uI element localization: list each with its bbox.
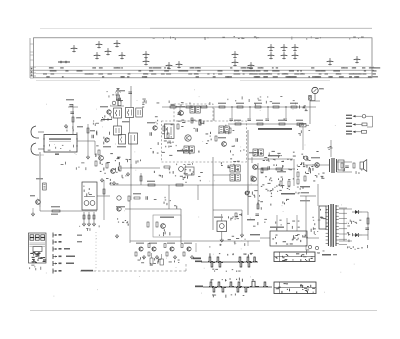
capacitor Cr1 bbox=[229, 119, 233, 121]
wire rail drop 4 bbox=[285, 107, 287, 118]
resistor R39 bbox=[103, 189, 105, 194]
ground G9 bbox=[92, 222, 95, 226]
resistor Rc2 bbox=[164, 244, 166, 248]
waveform glyph W14 bbox=[268, 45, 275, 52]
arrowhead conn 2 bbox=[353, 123, 356, 125]
extra parts above SW-A bbox=[209, 236, 245, 248]
capacitor Cr0a bbox=[177, 113, 181, 115]
SW-B baseline bbox=[203, 286, 272, 288]
audio bias parts bbox=[313, 173, 324, 182]
resistor Rc1 bbox=[148, 244, 150, 248]
IF transformer T5 bbox=[253, 149, 263, 156]
resistor R23 bbox=[83, 215, 85, 219]
video cluster parts bbox=[263, 155, 284, 162]
resistor R19 bbox=[128, 196, 130, 201]
capacitor C8 bbox=[236, 138, 238, 142]
wire filter out bbox=[97, 195, 110, 197]
extra labels under tuner area bbox=[61, 162, 87, 170]
wire rectifier bottom bbox=[339, 240, 352, 242]
thick video line bbox=[258, 128, 292, 130]
label Q8 and parts bbox=[249, 152, 259, 153]
labels under pilot lamps bbox=[306, 250, 325, 255]
legend right note b bbox=[77, 241, 82, 242]
label audio section bbox=[300, 186, 310, 187]
wire center vert 2 bbox=[130, 164, 132, 200]
coil can T2c bbox=[129, 133, 138, 144]
parts above deflection bbox=[275, 220, 300, 231]
transistor Q6 IF2 bbox=[185, 135, 191, 141]
label R11 bbox=[147, 181, 155, 182]
capacitor C4 polarized lower-left bbox=[43, 183, 47, 190]
sync cluster b bbox=[228, 213, 242, 220]
connector list label 3 bbox=[346, 123, 352, 124]
loop parts bbox=[159, 229, 170, 236]
ground G13 bbox=[220, 238, 223, 242]
switch table footnotes bbox=[29, 265, 41, 271]
resistor Rb2 bbox=[148, 252, 150, 256]
label osc can bbox=[214, 217, 223, 218]
wire T7 secondary bottom bbox=[337, 171, 353, 173]
pilot lamp circles under transformer bbox=[306, 245, 319, 250]
power switch marks bbox=[320, 209, 328, 227]
transistor Q3 mixer bbox=[105, 138, 109, 142]
label SW-B bbox=[195, 286, 203, 288]
resistor R30 bbox=[106, 163, 108, 168]
wire T1a to T2a bbox=[117, 118, 119, 126]
resistor R9 bbox=[215, 136, 217, 141]
connector plug symbol P3 bbox=[362, 130, 367, 133]
connector list label 5 bbox=[346, 131, 352, 132]
wire B+ rail top bbox=[162, 106, 316, 108]
wire Q1 emitter bbox=[39, 207, 41, 211]
bottom row labels bbox=[138, 257, 180, 265]
resistor R38 bbox=[257, 204, 259, 209]
resistor R8 bbox=[199, 120, 201, 125]
capacitor C5 bbox=[128, 92, 132, 94]
wire T5 down bbox=[251, 157, 253, 163]
oscillator box bbox=[165, 124, 175, 139]
SW-B pulse a5 wide bbox=[250, 281, 259, 286]
diode D1 bbox=[352, 210, 362, 214]
transistor Qb3 bottom row bbox=[170, 247, 174, 251]
label node bbox=[77, 126, 83, 127]
wire center vertical to AGC bbox=[130, 141, 132, 168]
rail labels bbox=[227, 96, 296, 106]
waveform glyph W12 bbox=[232, 60, 239, 67]
ground G12 bbox=[112, 181, 115, 185]
transistor Q2 RF amp bbox=[107, 110, 111, 114]
waveform glyph arrow left bbox=[58, 61, 70, 64]
osc can labels bbox=[233, 216, 239, 219]
dashed wire up bbox=[185, 262, 187, 271]
table FIG notes 2 frame bbox=[274, 282, 316, 294]
extra parts top center bbox=[142, 99, 159, 108]
coil can T2b bbox=[119, 135, 126, 145]
legend right note a bbox=[77, 235, 82, 236]
resistor R11 bbox=[148, 184, 155, 186]
wire left bus vertical bbox=[39, 152, 41, 207]
wire driver to Q10 bbox=[303, 164, 314, 166]
dotted wire crystal to legend bbox=[95, 232, 97, 271]
extra parts right of video bbox=[297, 154, 311, 170]
tuning coil can T1b bbox=[126, 108, 134, 118]
resistor column mid box bbox=[206, 132, 212, 144]
label SW arrow right bbox=[195, 261, 202, 263]
SW-B pulse b1 bbox=[212, 288, 217, 292]
waveform glyph W6 bbox=[119, 53, 126, 60]
label Q3 bbox=[103, 146, 111, 147]
wire down to audio transformer bbox=[330, 140, 332, 157]
wire into deflection 1 bbox=[276, 215, 278, 231]
label right of sync 2 bbox=[250, 234, 260, 235]
extra parts right of tuner bbox=[96, 131, 110, 147]
SW-A pulse b4 bbox=[247, 263, 252, 267]
speaker SP1 bbox=[360, 160, 367, 172]
transistor Q17 circle bbox=[179, 167, 184, 172]
tuning coil can T1a bbox=[114, 108, 122, 118]
wire down to sound section bbox=[302, 127, 304, 150]
SW-A pulse a4 bbox=[246, 257, 251, 261]
tuner pin dots bbox=[43, 138, 77, 155]
waveform glyph W15 bbox=[281, 45, 288, 52]
waveform chart band frame bbox=[34, 38, 373, 78]
transistor Qb1 bottom row bbox=[139, 247, 143, 251]
ground Gb2 bbox=[155, 255, 158, 259]
waveform band small tick rows bbox=[43, 67, 380, 77]
waveform glyph W8 bbox=[143, 59, 150, 66]
af cluster parts bbox=[117, 218, 128, 225]
label Q5 bbox=[176, 106, 185, 107]
waveform glyph W21 bbox=[354, 57, 361, 64]
SW-A pulse b3 bbox=[239, 263, 244, 267]
capacitor C10 bbox=[345, 166, 349, 168]
label R1 value bbox=[76, 117, 81, 118]
transistor Q5 IF1 bbox=[179, 111, 184, 116]
extra parts left mid bbox=[106, 175, 127, 185]
resistor R5 bbox=[98, 150, 100, 155]
capacitor Cr3 bbox=[265, 119, 269, 121]
resistor R31 bbox=[191, 118, 193, 123]
wire screen rail bbox=[228, 123, 306, 125]
wire sync h bbox=[213, 209, 242, 211]
wire rail drop left b bbox=[195, 107, 197, 112]
wire into T6 bbox=[213, 174, 230, 176]
SW-A pulse a5 bbox=[253, 257, 257, 261]
SW-A pulse a3 bbox=[238, 257, 243, 261]
label sound text bbox=[281, 193, 295, 195]
crystal filter marks bbox=[83, 186, 92, 197]
wire bottom row bus bbox=[130, 240, 196, 242]
extra parts box B lower bbox=[230, 146, 245, 156]
SW-B pulse a3 bbox=[229, 282, 234, 286]
parts left of vertical bbox=[299, 105, 308, 111]
resistor Rt0b bbox=[186, 106, 192, 108]
extra parts below video bbox=[253, 188, 289, 205]
rectifier parts bbox=[347, 220, 361, 236]
wire bottom bus to deflection bbox=[196, 240, 260, 242]
audio transformer winding box bbox=[338, 160, 344, 170]
dashed IF module box upper bbox=[174, 104, 213, 121]
SW-A pulse a2 bbox=[216, 257, 221, 261]
extra parts sync left bbox=[221, 158, 240, 170]
resistor R32 bbox=[199, 120, 201, 125]
ground G1 bbox=[64, 124, 67, 128]
SW-B pulse b4 bbox=[244, 288, 249, 292]
wire T7 secondary top bbox=[337, 161, 353, 163]
label R20 bbox=[133, 193, 141, 194]
wire R2 up bbox=[87, 124, 89, 141]
legend text row5 bbox=[66, 263, 74, 265]
coil can T2a bbox=[114, 126, 122, 135]
wire video out down bbox=[293, 159, 295, 186]
ground Gb3 bbox=[173, 255, 176, 259]
ground G8 bbox=[87, 222, 90, 226]
resistor R25 bbox=[93, 215, 95, 219]
label C4 bbox=[36, 178, 43, 179]
SW-B tick labels bbox=[211, 278, 254, 282]
IF module B parts bbox=[218, 125, 234, 135]
resistor R46 bbox=[167, 133, 169, 138]
capacitor Cr4 bbox=[283, 119, 287, 121]
resistor R33 bbox=[262, 168, 268, 170]
connector list label 1 bbox=[346, 115, 352, 116]
wire sync vert bbox=[247, 186, 249, 196]
wire rail drop left a bbox=[179, 107, 181, 112]
waveform glyph W9 bbox=[166, 63, 173, 70]
band row line 2 bbox=[30, 69, 374, 71]
label FIG 10a bbox=[322, 254, 331, 256]
power transformer winding ticks bbox=[326, 206, 339, 243]
wire conn bus vertical bbox=[372, 116, 374, 127]
resistor Rb4 bbox=[183, 252, 185, 256]
bottom margin faint line bbox=[30, 310, 377, 312]
antenna series trap box bbox=[116, 95, 119, 101]
dashed wire from legend bbox=[80, 270, 186, 272]
balun coil cluster bbox=[110, 101, 124, 107]
sound det extra parts bbox=[254, 151, 296, 161]
label power bbox=[300, 200, 310, 201]
connector plug symbol P2 bbox=[362, 123, 367, 126]
capacitor C6 bbox=[150, 132, 152, 136]
ground Gb4 bbox=[190, 255, 193, 259]
wire x104 vertical bbox=[103, 180, 105, 220]
SW-A pulse b1 bbox=[210, 263, 215, 267]
label C2 bbox=[66, 99, 74, 100]
labels above R2 bbox=[93, 120, 99, 126]
wire R2 down bbox=[87, 141, 89, 155]
wire jack tie bbox=[310, 100, 320, 102]
resistor R21 bbox=[147, 222, 149, 227]
waveform glyph W11 bbox=[232, 52, 239, 59]
resistor R43 hatched on vertical bbox=[309, 96, 312, 101]
IF transformer T4 bbox=[184, 146, 194, 153]
wire drop a bbox=[168, 185, 170, 209]
resistor Rt3 on rail bbox=[255, 106, 261, 108]
transistor Q19 circle bbox=[304, 156, 308, 160]
capacitor C13 bbox=[365, 228, 369, 230]
small parts beside tuner bbox=[67, 126, 78, 135]
waveform glyph W2 bbox=[96, 42, 103, 49]
legend row10 dashed line bbox=[81, 270, 93, 272]
resistor Rt1 on rail bbox=[219, 106, 225, 108]
resistor R42 bbox=[304, 176, 306, 181]
power transformer T8 core bbox=[328, 204, 336, 247]
parts left of cans bbox=[101, 114, 113, 122]
IF transformer T6 stacked upper bbox=[230, 165, 240, 172]
earphone jack J2 bbox=[312, 87, 318, 93]
wire jack tie 2 bbox=[310, 100, 315, 102]
SW-A lower tick labels bbox=[212, 269, 240, 272]
label deflection bbox=[270, 227, 284, 228]
extra parts center bbox=[150, 142, 172, 156]
wire tuner feed vertical bbox=[72, 104, 74, 134]
sync sep parts bbox=[275, 178, 294, 188]
scan specks bbox=[37, 88, 354, 296]
labels under dashed box bbox=[176, 163, 193, 168]
arrowhead conn 1 bbox=[353, 115, 356, 117]
labels left of transformer bbox=[312, 217, 320, 234]
jack J2 inner mark bbox=[314, 89, 317, 92]
band left cell tick bbox=[30, 54, 34, 56]
ground G10 bbox=[240, 233, 243, 237]
legend text row3 bbox=[64, 248, 70, 250]
label AC bbox=[301, 192, 309, 193]
AGC parts bbox=[126, 159, 142, 164]
diode D2 bbox=[352, 233, 362, 237]
wire rect output vertical bbox=[367, 212, 369, 240]
label Q11 bbox=[116, 206, 125, 207]
IF module A lower parts bbox=[181, 149, 200, 154]
resistor Rs1 bbox=[235, 123, 241, 125]
crystal filter leads and grounds bbox=[84, 212, 94, 222]
IF transformer T3 bbox=[190, 106, 200, 113]
wire osc can bottom lead bbox=[221, 232, 223, 239]
block crystal filter box bbox=[82, 182, 97, 210]
SW-B pulse a1 bbox=[209, 282, 214, 286]
SW-B pulse a6 bbox=[263, 282, 268, 286]
SW-B pulse b3 bbox=[236, 288, 241, 292]
resistor Rt0a bbox=[170, 106, 176, 108]
dashed IF module box main bbox=[162, 121, 247, 162]
band bottom left index cells bbox=[30, 67, 36, 76]
resistor Rc3 bbox=[181, 244, 183, 248]
band below faint segment a bbox=[36, 79, 100, 81]
label Q10 bbox=[311, 157, 320, 158]
tuner block internal marks bbox=[48, 144, 74, 151]
SW-B lower tick labels bbox=[212, 294, 244, 298]
arrow glyph left of cans bbox=[101, 118, 112, 121]
tuner block box bbox=[44, 135, 77, 153]
resistor Rt4 on rail bbox=[273, 106, 279, 108]
wire into deflection bbox=[260, 237, 270, 239]
antenna labels bbox=[107, 91, 117, 97]
label Q1 bbox=[30, 195, 35, 196]
wire rail drop 1 bbox=[231, 107, 233, 118]
mixer cluster parts bbox=[95, 153, 123, 178]
label Q4 bbox=[147, 122, 155, 123]
SW-A pulse a1 bbox=[208, 257, 213, 261]
waveform glyph W16 bbox=[292, 45, 299, 52]
resistor Rt5 on rail bbox=[291, 106, 297, 108]
transistor Q9 bbox=[252, 177, 257, 182]
wire video down bbox=[257, 163, 259, 209]
wire drop b bbox=[197, 185, 199, 200]
connector list label 2 bbox=[346, 118, 352, 119]
parts left inside dashed box bbox=[162, 124, 174, 147]
band row line 1 bbox=[36, 65, 374, 67]
transistor Qb4 bottom row bbox=[187, 247, 191, 251]
transistor Q4 osc bbox=[153, 126, 157, 130]
band left bottom tie bbox=[30, 77, 34, 79]
resistor R20 bbox=[134, 197, 140, 199]
wire into deflection 3 bbox=[296, 215, 298, 231]
resistor R35 bbox=[119, 166, 121, 171]
waveform glyph W17 bbox=[268, 53, 275, 60]
label video bbox=[268, 155, 280, 156]
resistor R37 bbox=[164, 166, 170, 168]
wire rectifier top bbox=[339, 208, 352, 210]
osc components bbox=[155, 116, 167, 124]
wire Q10 to T7 bbox=[320, 164, 329, 166]
crystal filter internal circles bbox=[84, 197, 95, 206]
ground G7 bbox=[82, 222, 85, 226]
wire conn 2 bbox=[355, 123, 362, 125]
ground G11 bbox=[100, 178, 103, 182]
transistor Q1 lower-left bbox=[36, 200, 41, 205]
resistor R3 bbox=[52, 210, 60, 212]
label right of sync bbox=[247, 219, 255, 220]
SW-B pulse a2 bbox=[217, 282, 222, 286]
wire AGC bus horizontal bbox=[120, 167, 160, 169]
antenna coupling parts bbox=[116, 98, 123, 103]
capacitor C11 bbox=[146, 196, 148, 200]
waveform glyph W7 bbox=[143, 52, 150, 59]
connector list label 6 bbox=[346, 133, 352, 134]
waveform glyph W10 bbox=[176, 62, 183, 69]
resistor R18 bbox=[353, 163, 355, 168]
extra parts center low bbox=[169, 171, 202, 182]
resistor Rs4 bbox=[297, 123, 303, 125]
resistor Rb3 bbox=[166, 252, 168, 256]
SW-B pulse b2 bbox=[221, 288, 226, 292]
switch table S1 frame bbox=[29, 233, 47, 263]
wire C2 node bbox=[68, 106, 78, 108]
label R3 value bbox=[51, 214, 58, 215]
label R15 bbox=[277, 171, 286, 172]
wire rail drop 2 bbox=[249, 107, 251, 118]
band left edge pin marks bbox=[30, 44, 34, 60]
band row line 3 bbox=[36, 73, 374, 75]
resistor R34 bbox=[276, 168, 282, 170]
SW-A tick labels bbox=[210, 253, 253, 257]
capacitor C1 bbox=[70, 112, 74, 114]
capacitor C2 top bbox=[69, 105, 73, 107]
rail labels left bbox=[169, 101, 211, 108]
resistor R10 bbox=[229, 128, 231, 133]
label antenna bbox=[120, 90, 125, 91]
resistor R45 bbox=[163, 126, 165, 131]
tuning coil can T1c bbox=[136, 108, 143, 117]
box power switch unit bbox=[319, 206, 326, 229]
wire rect mid vert bbox=[343, 209, 345, 241]
transistor Q16 agc bbox=[111, 169, 116, 174]
waveform glyph W20 bbox=[327, 59, 334, 66]
power transformer tap wires bbox=[339, 208, 347, 244]
label module name bbox=[177, 150, 193, 152]
capacitor C7 bbox=[196, 128, 198, 132]
video row parts bbox=[261, 164, 292, 172]
wire J1 to tuner upper bbox=[38, 131, 44, 133]
